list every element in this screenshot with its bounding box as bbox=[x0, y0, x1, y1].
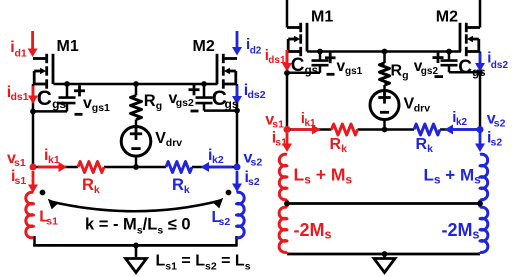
svg-text:s2: s2 bbox=[219, 216, 231, 228]
svg-text:drv: drv bbox=[166, 137, 183, 149]
svg-text:ds2: ds2 bbox=[248, 89, 266, 101]
svg-text:gs: gs bbox=[52, 97, 66, 111]
svg-text:gs1: gs1 bbox=[345, 66, 363, 77]
svg-text:k = - Ms/Ls ≤ 0: k = - Ms/Ls ≤ 0 bbox=[85, 216, 191, 237]
svg-text:gs: gs bbox=[225, 97, 239, 111]
svg-text:R: R bbox=[172, 176, 184, 194]
svg-text:C: C bbox=[458, 57, 472, 78]
svg-text:k: k bbox=[341, 143, 347, 155]
svg-text:M1: M1 bbox=[311, 8, 333, 25]
svg-text:Ls + Ms: Ls + Ms bbox=[424, 166, 482, 187]
svg-text:R: R bbox=[416, 136, 428, 153]
svg-text:M2: M2 bbox=[193, 38, 215, 55]
svg-text:R: R bbox=[82, 176, 94, 194]
svg-text:R: R bbox=[144, 92, 156, 110]
svg-text:d1: d1 bbox=[15, 48, 27, 60]
svg-text:R: R bbox=[330, 136, 342, 153]
svg-text:k2: k2 bbox=[212, 154, 224, 166]
svg-text:k: k bbox=[184, 184, 190, 196]
svg-text:s2: s2 bbox=[494, 118, 506, 130]
svg-text:gs2: gs2 bbox=[176, 97, 194, 109]
svg-text:-2Ms: -2Ms bbox=[442, 220, 480, 242]
svg-text:M2: M2 bbox=[436, 8, 458, 25]
svg-text:R: R bbox=[391, 63, 403, 80]
svg-text:gs2: gs2 bbox=[421, 66, 439, 77]
svg-text:ds1: ds1 bbox=[11, 91, 29, 103]
svg-text:s1: s1 bbox=[14, 157, 26, 169]
svg-text:s2: s2 bbox=[491, 137, 503, 149]
svg-text:s1: s1 bbox=[15, 175, 27, 187]
svg-text:V: V bbox=[155, 130, 166, 147]
svg-text:gs: gs bbox=[472, 67, 485, 79]
svg-text:k2: k2 bbox=[456, 117, 468, 128]
svg-text:k: k bbox=[94, 184, 100, 196]
svg-text:C: C bbox=[291, 55, 305, 76]
svg-text:g: g bbox=[402, 70, 408, 82]
svg-text:gs1: gs1 bbox=[92, 102, 110, 114]
svg-text:M1: M1 bbox=[57, 38, 79, 55]
svg-text:-2Ms: -2Ms bbox=[294, 220, 332, 242]
svg-text:s2: s2 bbox=[251, 157, 263, 169]
svg-text:k: k bbox=[427, 143, 433, 155]
svg-text:v: v bbox=[83, 95, 92, 112]
svg-text:d2: d2 bbox=[250, 46, 262, 57]
svg-text:ds2: ds2 bbox=[491, 60, 509, 71]
svg-text:C: C bbox=[37, 87, 52, 110]
svg-text:s1: s1 bbox=[46, 216, 58, 228]
svg-text:Ls1 = Ls2 = Ls: Ls1 = Ls2 = Ls bbox=[156, 253, 251, 273]
svg-text:s1: s1 bbox=[275, 137, 287, 149]
svg-text:gs: gs bbox=[305, 65, 318, 77]
svg-text:k1: k1 bbox=[48, 154, 60, 166]
svg-text:k1: k1 bbox=[305, 118, 317, 129]
svg-text:drv: drv bbox=[414, 103, 431, 115]
svg-text:Ls + Ms: Ls + Ms bbox=[294, 165, 353, 187]
svg-text:ds1: ds1 bbox=[268, 55, 286, 66]
svg-text:g: g bbox=[156, 100, 162, 112]
svg-text:s2: s2 bbox=[248, 176, 260, 188]
